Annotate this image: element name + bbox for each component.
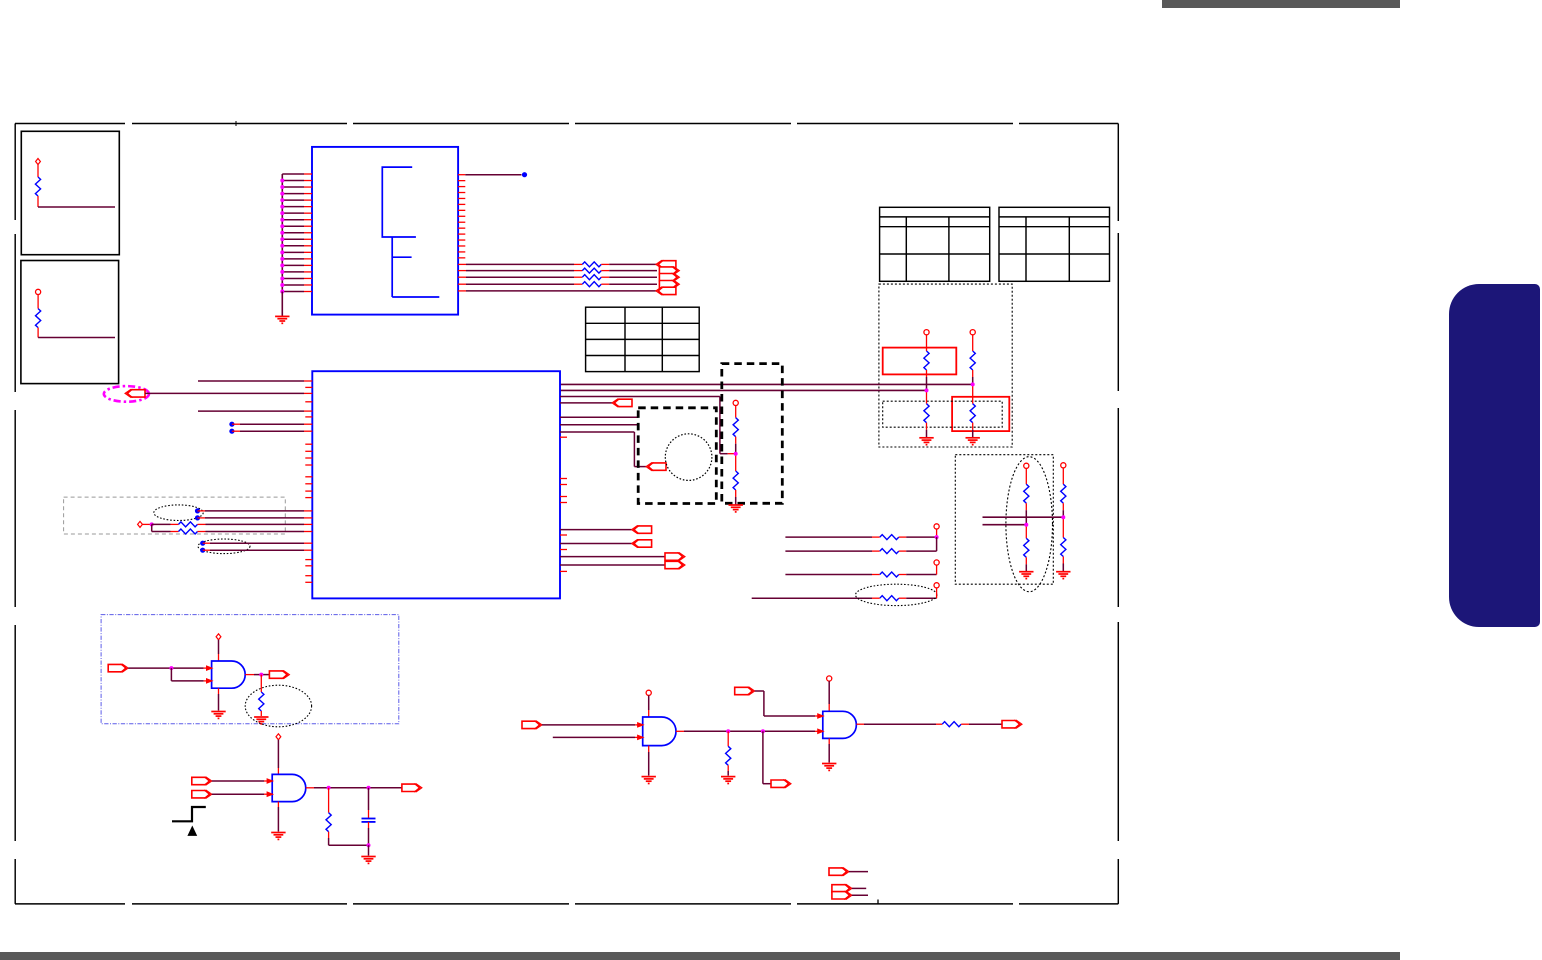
connector arrow A1 xyxy=(656,260,676,268)
connector arrow A18 xyxy=(522,721,542,729)
dotted ellipse E5 xyxy=(856,584,937,605)
sheet border right segment 3 xyxy=(1117,408,1119,607)
connector arrow A19 xyxy=(771,780,791,788)
dashed magenta ellipse E1 xyxy=(104,386,149,402)
wire+resistor R20 xyxy=(785,550,872,552)
connector arrow A15 xyxy=(192,777,212,785)
wire U1 left pin 6 xyxy=(282,206,304,208)
node dot xyxy=(195,508,200,513)
gate input arrowhead xyxy=(637,735,645,741)
U1 right pin stub 7 xyxy=(458,209,465,211)
wire U1 left pin 14 xyxy=(282,258,304,260)
sheet border top segment 6 xyxy=(1019,123,1118,125)
wire U1 left pin 11 xyxy=(282,238,304,240)
connector arrow A24 xyxy=(832,891,852,899)
junction dot xyxy=(169,666,173,670)
wire U1 left pin 4 xyxy=(282,193,304,195)
ground xyxy=(642,777,656,784)
junction dot xyxy=(971,382,975,386)
wire xyxy=(38,206,115,208)
resistor R12 xyxy=(179,529,198,534)
connector arrow A6 xyxy=(125,389,145,397)
U2 right pin stub xyxy=(560,436,567,438)
wire xyxy=(145,392,304,394)
wire xyxy=(198,531,206,533)
junction dot xyxy=(280,192,284,196)
wire U1 data line 1 xyxy=(458,263,466,265)
wire xyxy=(170,668,172,681)
wire netA xyxy=(983,516,1064,518)
wire net1 xyxy=(560,383,973,385)
op IC U1 body xyxy=(312,147,458,315)
sheet border left segment 3 xyxy=(14,410,16,607)
dotted group box DBB xyxy=(955,455,1053,585)
sheet border right segment 4 xyxy=(1117,622,1119,841)
wire xyxy=(232,430,240,432)
dotted group box DA xyxy=(879,284,1012,447)
wire U1 left pin 9 xyxy=(282,225,304,227)
navy side tab xyxy=(1449,284,1540,627)
bold dashed box DB2 xyxy=(722,364,783,504)
resistor R6 xyxy=(582,282,601,287)
and gate G4 xyxy=(823,711,857,738)
U2 left pin stub xyxy=(305,581,312,583)
resistor pair R15/R16 xyxy=(1024,463,1029,468)
wire xyxy=(727,765,729,771)
pin P9 xyxy=(646,690,651,695)
resistor R25 xyxy=(726,746,731,765)
ground xyxy=(271,833,285,840)
wire xyxy=(676,730,684,732)
zone tick top xyxy=(235,121,237,126)
wire xyxy=(218,640,220,654)
junction dot xyxy=(1024,523,1028,527)
U2 left pin stub xyxy=(305,565,312,567)
junction dot xyxy=(280,257,284,261)
ground xyxy=(721,777,735,784)
dotted circle C1 xyxy=(665,434,712,481)
connector arrow A4 xyxy=(659,280,679,288)
red highlight box H2 xyxy=(952,397,1009,431)
pin P5 xyxy=(934,560,939,565)
wire xyxy=(368,845,370,855)
wire xyxy=(245,674,254,676)
wire U1 left pin 7 xyxy=(282,212,304,214)
wire xyxy=(560,556,665,558)
U1 right pin stub 11 xyxy=(458,233,465,235)
pin P1 xyxy=(36,159,41,165)
wire xyxy=(306,787,314,789)
U1 right pin stub 12 xyxy=(458,239,465,241)
op IC U2 body xyxy=(312,371,560,598)
connector arrow A14 xyxy=(269,670,289,678)
wire xyxy=(849,871,868,873)
red highlight box H1 xyxy=(883,348,957,375)
U1 right pin stub 8 xyxy=(458,215,465,217)
wire xyxy=(260,711,262,716)
junction dot xyxy=(280,231,284,235)
resistor pair R9/R10 xyxy=(970,330,975,335)
junction dot xyxy=(367,786,371,790)
U1 right pin stub 3 xyxy=(458,186,465,188)
connector arrow A3 xyxy=(659,273,679,281)
junction dot xyxy=(280,211,284,215)
edge/step symbol xyxy=(172,807,206,821)
sheet border bottom segment 6 xyxy=(1019,903,1118,905)
U1 right pin stub 10 xyxy=(458,227,465,229)
sheet border top segment 2 xyxy=(132,123,347,125)
wire xyxy=(560,543,632,545)
U2 right pin stub xyxy=(560,502,567,504)
wire xyxy=(648,695,650,710)
block box B2 xyxy=(21,261,119,384)
U2 left pin stub xyxy=(305,575,312,577)
resistor R1 xyxy=(35,177,40,196)
node dot xyxy=(229,422,234,427)
wire xyxy=(142,523,151,525)
wire xyxy=(203,542,210,544)
connector arrow A5 xyxy=(656,287,676,295)
connector arrow A22 xyxy=(829,867,849,875)
wire+resistor R22 xyxy=(752,597,872,599)
junction dot xyxy=(280,185,284,189)
top gray bar xyxy=(1162,0,1400,8)
resistor R11 xyxy=(179,522,198,527)
gate input arrowhead xyxy=(206,678,214,684)
resistor R24 xyxy=(326,813,331,832)
connector arrow A11 xyxy=(665,552,685,560)
wire xyxy=(560,431,634,433)
sheet border bottom segment 3 xyxy=(353,903,569,905)
resistor R5 xyxy=(582,275,601,280)
ground xyxy=(211,712,225,719)
U2 left pin stub xyxy=(305,450,312,452)
wire xyxy=(601,263,609,265)
resistor R26 xyxy=(942,722,961,727)
wire U1 data line 3 xyxy=(458,276,466,278)
connector arrow A23 xyxy=(832,884,852,892)
pin P7 xyxy=(216,634,221,640)
wire U1 left pin 13 xyxy=(282,251,304,253)
dotted ellipse E4 xyxy=(1006,457,1053,592)
block box B1 xyxy=(21,131,119,254)
wire xyxy=(601,270,609,272)
pin P8 xyxy=(276,734,281,740)
wire xyxy=(936,565,938,574)
junction dot xyxy=(280,237,284,241)
wire xyxy=(852,894,868,896)
resistor pair R7/R8 xyxy=(924,330,929,335)
junction dot xyxy=(280,244,284,248)
node dot xyxy=(229,429,234,434)
pin P10 xyxy=(827,676,832,681)
junction dot xyxy=(935,535,939,539)
sheet border left segment 5 xyxy=(14,859,16,904)
wire xyxy=(198,523,206,525)
sheet border bottom segment 4 xyxy=(575,903,791,905)
U1 right pin stub 13 xyxy=(458,245,465,247)
sheet border top segment 5 xyxy=(797,123,1013,125)
wire xyxy=(281,292,283,317)
dotted group box DA2 xyxy=(883,401,1003,427)
ground xyxy=(254,717,268,724)
wire xyxy=(260,675,262,692)
connector arrow A2 xyxy=(659,266,679,274)
junction dot xyxy=(734,452,738,456)
U1 right pin stub 9 xyxy=(458,221,465,223)
wire U1 left pin 12 xyxy=(282,245,304,247)
connector arrow A10 xyxy=(632,539,652,547)
U2 left pin stub xyxy=(305,416,312,418)
wire xyxy=(368,822,370,828)
node dot xyxy=(522,172,527,177)
connector arrow A12 xyxy=(665,561,685,569)
zone tick bottom xyxy=(877,900,879,904)
gate input arrowhead xyxy=(817,728,825,734)
sheet border right segment 2 xyxy=(1117,233,1119,391)
table T2 xyxy=(880,207,990,281)
wire xyxy=(601,283,609,285)
ground xyxy=(361,857,375,864)
wire U1 left pin 15 xyxy=(282,264,304,266)
dotted ellipse E2 xyxy=(154,505,203,521)
wire xyxy=(38,337,115,339)
node dot xyxy=(200,541,205,546)
sheet border left segment 4 xyxy=(14,625,16,841)
connector arrow A21 xyxy=(1002,720,1022,728)
wire xyxy=(465,174,521,176)
U2 left pin stub xyxy=(305,443,312,445)
wire U1 data line 5 xyxy=(458,290,466,292)
junction dot xyxy=(280,218,284,222)
U2 right pin stub xyxy=(560,478,567,480)
junction dot xyxy=(280,250,284,254)
U1 right pin stub 4 xyxy=(458,192,465,194)
wire xyxy=(560,529,632,531)
table T1 xyxy=(586,307,700,371)
sheet border top segment 4 xyxy=(575,123,791,125)
connector arrow A20 xyxy=(735,687,755,695)
wire xyxy=(37,295,39,309)
wire xyxy=(198,510,206,512)
wire xyxy=(37,196,39,207)
U2 left pin stub xyxy=(305,476,312,478)
wire U1 data line 4 xyxy=(458,283,466,285)
U1 right pin stub 5 xyxy=(458,197,465,199)
wire xyxy=(212,780,264,782)
gate input arrowhead xyxy=(267,778,275,784)
bottom gray bar xyxy=(0,952,1400,960)
wire xyxy=(560,424,638,426)
U2 left pin stub xyxy=(305,386,312,388)
wire xyxy=(328,788,330,813)
wire xyxy=(648,746,650,752)
wire xyxy=(601,276,609,278)
junction dot xyxy=(280,263,284,267)
U2 left pin stub xyxy=(305,457,312,459)
junction dot xyxy=(280,290,284,294)
wire xyxy=(198,517,206,519)
pin P2 xyxy=(36,289,41,294)
wire xyxy=(198,410,304,412)
junction dot xyxy=(280,270,284,274)
U2 right pin stub xyxy=(560,570,567,572)
U1 right pin stub 2 xyxy=(458,180,465,182)
wire xyxy=(560,402,612,404)
wire U1 left pin 10 xyxy=(282,232,304,234)
wire xyxy=(856,723,864,725)
pin P6 xyxy=(934,583,939,588)
resistor pair R17/R18 xyxy=(1061,463,1066,468)
junction dot xyxy=(280,224,284,228)
junction dot xyxy=(925,388,929,392)
wire xyxy=(560,564,665,566)
sheet border left segment 2 xyxy=(14,234,16,392)
wire U1 left pin 5 xyxy=(282,199,304,201)
dashed blue group box xyxy=(101,615,399,724)
U2 left pin stub xyxy=(305,483,312,485)
connector arrow A16 xyxy=(192,790,212,798)
bold dashed box DB1 xyxy=(638,408,716,504)
wire U1 left pin 1 xyxy=(282,173,304,175)
and gate G1 xyxy=(212,661,246,688)
junction dot xyxy=(1061,515,1065,519)
table T3 xyxy=(999,207,1110,281)
U1 right pin stub 1 xyxy=(458,174,465,176)
sheet border bottom segment 5 xyxy=(797,903,1013,905)
wire xyxy=(936,588,938,598)
wire xyxy=(936,537,938,551)
gate input arrowhead xyxy=(637,722,645,728)
U1 right pin stub 6 xyxy=(458,203,465,205)
junction dot xyxy=(280,283,284,287)
wire xyxy=(727,731,729,746)
pin P3 xyxy=(138,521,143,527)
wire+resistor R21 xyxy=(785,574,872,576)
U2 left pin stub xyxy=(305,401,312,403)
wire xyxy=(198,380,304,382)
junction dot xyxy=(280,198,284,202)
wire xyxy=(277,802,279,807)
U2 right pin stub xyxy=(560,496,567,498)
junction dot xyxy=(280,179,284,183)
wire U1 data line 2 xyxy=(458,270,466,272)
wire U1 left pin 2 xyxy=(282,180,304,182)
U1 right pin stub 15 xyxy=(458,257,465,259)
wire xyxy=(560,416,638,418)
U1 internal divider polyline xyxy=(382,167,439,297)
wire xyxy=(368,788,370,810)
ground xyxy=(275,316,289,323)
wire xyxy=(212,793,264,795)
U1 right pin stub 14 xyxy=(458,251,465,253)
junction dot xyxy=(726,729,730,733)
junction dot xyxy=(367,843,371,847)
wire xyxy=(152,523,171,525)
capacitor C2 xyxy=(362,818,376,820)
wire xyxy=(560,396,720,398)
U2 left pin stub xyxy=(305,497,312,499)
wire U1 left pin 18 xyxy=(282,284,304,286)
junction dot xyxy=(280,205,284,209)
wire xyxy=(852,887,866,889)
wire xyxy=(128,667,171,669)
wire xyxy=(328,832,330,838)
wire xyxy=(37,328,39,338)
U2 left pin stub xyxy=(305,464,312,466)
wire xyxy=(218,688,220,694)
wire xyxy=(151,524,153,531)
gate input arrowhead xyxy=(267,791,275,797)
junction dot xyxy=(259,673,263,677)
connector arrow A9 xyxy=(632,525,652,533)
resistor pair R13/R14 xyxy=(733,400,738,405)
junction dot xyxy=(280,276,284,280)
wire xyxy=(961,723,969,725)
wire xyxy=(232,423,240,425)
sheet border right segment 5 xyxy=(1117,859,1119,904)
gate input arrowhead xyxy=(817,713,825,719)
U2 right pin stub xyxy=(560,534,567,536)
wire xyxy=(762,731,764,783)
resistor R23 xyxy=(259,692,264,711)
U2 left pin stub xyxy=(305,559,312,561)
wire xyxy=(828,738,830,744)
connector arrow A13 xyxy=(108,664,128,672)
node dot xyxy=(195,515,200,520)
wire xyxy=(828,681,830,704)
dotted ellipse E6 xyxy=(245,685,311,727)
wire U1 left pin 17 xyxy=(282,277,304,279)
sheet border top segment 3 xyxy=(353,123,569,125)
pin P4 xyxy=(934,524,939,529)
wire xyxy=(755,690,764,692)
gate input arrowhead xyxy=(206,665,214,671)
sheet border top segment 1 xyxy=(15,123,125,125)
junction dot xyxy=(150,522,154,526)
junction dot xyxy=(761,729,765,733)
and gate G2 xyxy=(272,774,306,801)
node dot xyxy=(200,548,205,553)
sheet border bottom segment 2 xyxy=(132,903,347,905)
wire U1 left pin 19 xyxy=(282,291,304,293)
wire U1 left pin 8 xyxy=(282,219,304,221)
ground xyxy=(822,764,836,771)
resistor R4 xyxy=(582,268,601,273)
connector arrow A7 xyxy=(612,399,632,407)
wire xyxy=(936,529,938,537)
U2 right pin stub xyxy=(560,549,567,551)
wire xyxy=(203,549,210,551)
sheet border bottom segment 1 xyxy=(15,903,125,905)
junction dot xyxy=(327,786,331,790)
sheet border left segment 1 xyxy=(14,124,16,221)
wire net2 xyxy=(560,389,927,391)
and gate G3 xyxy=(643,717,676,746)
dashed group box G1 xyxy=(64,497,286,534)
wire xyxy=(277,740,279,768)
wire U1 left pin 16 xyxy=(282,271,304,273)
resistor R2 xyxy=(36,309,41,328)
resistor R3 xyxy=(582,262,601,267)
connector arrow A17 xyxy=(402,784,422,792)
wire U1 left pin 3 xyxy=(282,186,304,188)
U1 left pin bus wire xyxy=(281,174,283,292)
wire+resistor R19 xyxy=(785,536,872,538)
dotted ellipse E3 xyxy=(198,539,250,554)
U2 right pin stub xyxy=(560,484,567,486)
wire xyxy=(37,165,39,178)
